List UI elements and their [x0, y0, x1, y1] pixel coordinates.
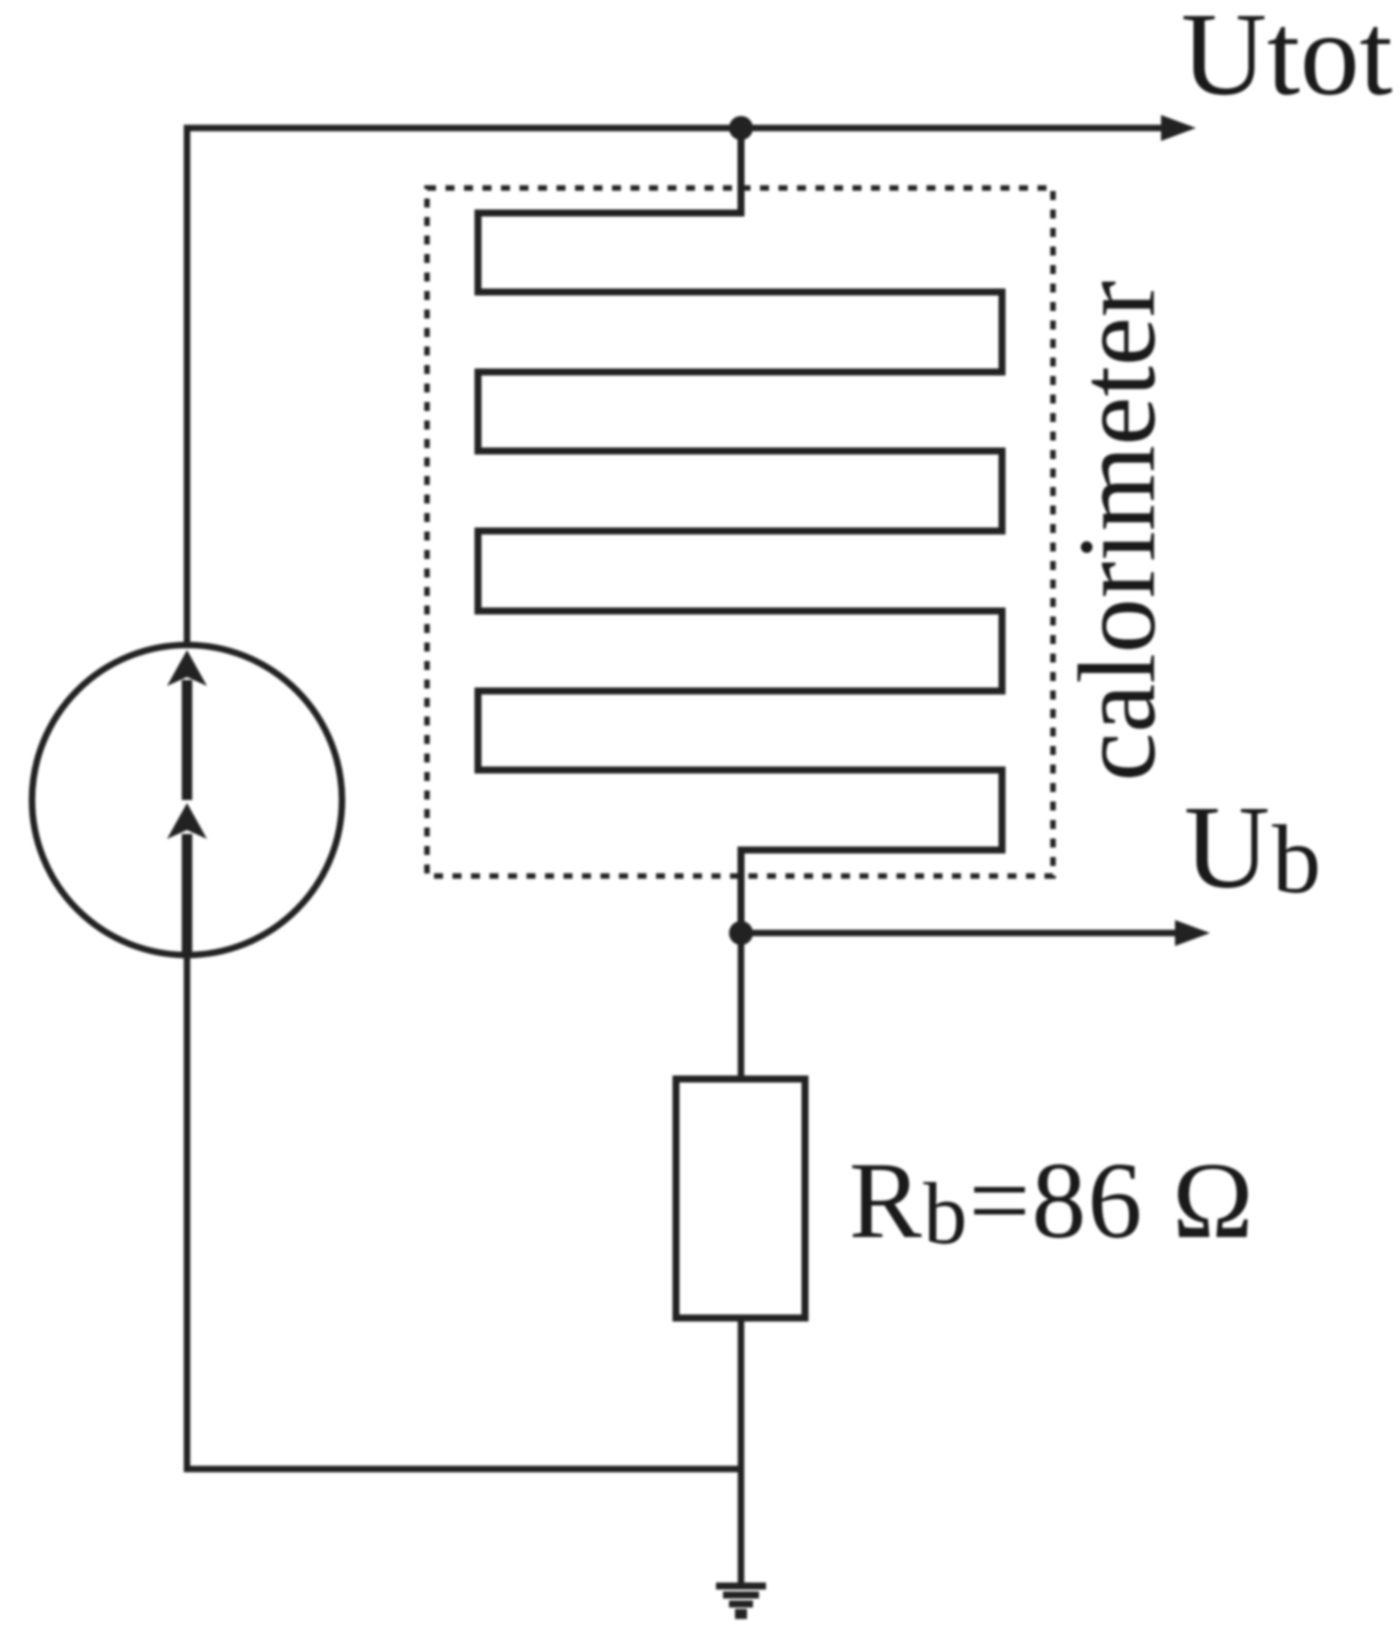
wire left branch: circle top to top-left corner to Utot arrow	[187, 128, 1166, 646]
node junction dot Ub tap	[729, 921, 753, 945]
calorimeter meander resistor element	[478, 128, 1002, 933]
svg-text:Ub: Ub	[1184, 781, 1323, 914]
svg-text:Rb=86 Ω: Rb=86 Ω	[849, 1140, 1255, 1263]
svg-text:Utot: Utot	[1181, 0, 1393, 120]
wire resistor Rb to ground	[738, 1318, 745, 1584]
wire left bottom: circle bottom, down, right to ground node	[187, 954, 741, 1469]
Ub probe arrow	[741, 920, 1210, 946]
svg-text:calorimeter: calorimeter	[1056, 281, 1178, 782]
current source arrow upper	[167, 650, 207, 800]
node junction dot top (Utot tap)	[729, 116, 753, 140]
current source I1 circle	[32, 645, 342, 955]
wire Ub node to resistor Rb	[738, 933, 745, 1079]
ground symbol	[716, 1586, 766, 1614]
resistor Rb body	[676, 1079, 805, 1318]
Utot probe arrowhead	[1161, 115, 1196, 141]
calorimeter dotted boundary box	[427, 188, 1053, 876]
current source arrow lower	[167, 803, 207, 956]
